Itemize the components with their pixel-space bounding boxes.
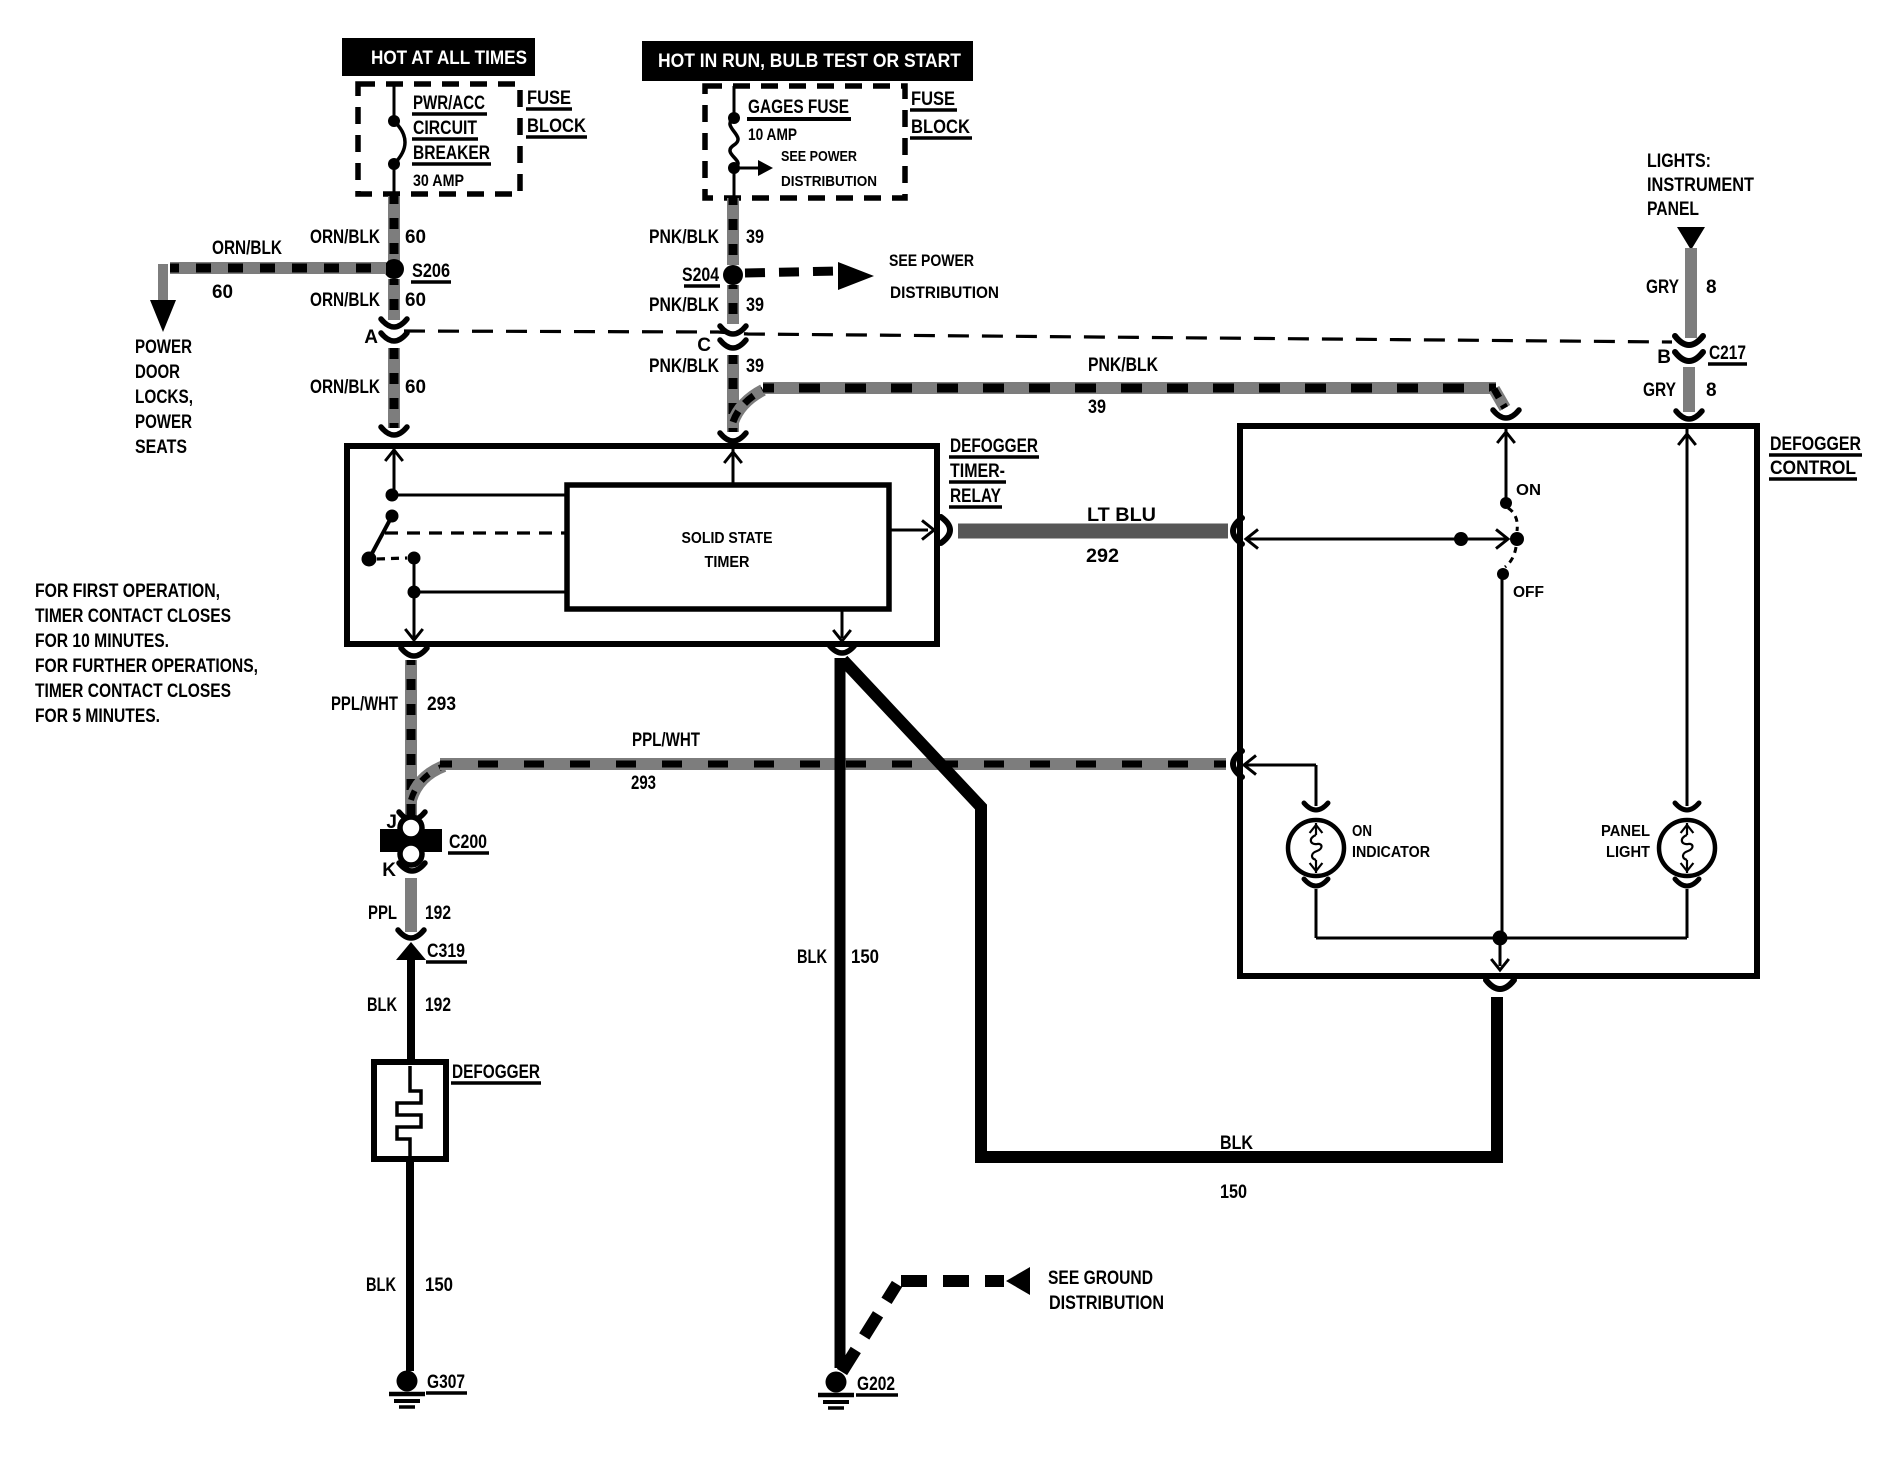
ground G202 (818, 1372, 898, 1409)
svg-text:BLK: BLK (366, 1275, 396, 1296)
switch OFF position (1497, 568, 1544, 601)
wire ORN/BLK 60 (S206 left branch) (150, 264, 386, 332)
svg-text:TIMER CONTACT CLOSES: TIMER CONTACT CLOSES (35, 681, 231, 702)
svg-text:LIGHTS:: LIGHTS: (1647, 151, 1711, 172)
svg-text:SEE GROUND: SEE GROUND (1048, 1268, 1153, 1289)
svg-text:PPL/WHT: PPL/WHT (632, 730, 700, 751)
solid state timer (567, 485, 889, 609)
defogger control box (1240, 426, 1757, 976)
defogger heating element box (374, 1062, 446, 1159)
svg-text:DEFOGGER: DEFOGGER (950, 436, 1038, 457)
wire PNK/BLK 39 (C to timer-relay) (727, 355, 739, 432)
label DEFOGGER (451, 1062, 541, 1083)
svg-text:192: 192 (425, 903, 451, 924)
label LT BLU 292 (1086, 505, 1156, 567)
label ON INDICATOR (1352, 823, 1430, 861)
svg-text:TIMER CONTACT CLOSES: TIMER CONTACT CLOSES (35, 606, 231, 627)
label FUSE BLOCK (left) (526, 88, 587, 137)
svg-text:BLOCK: BLOCK (911, 117, 970, 138)
connector chevron (timer-relay PPL/WHT output) (401, 648, 427, 656)
connector C (in-line) (697, 326, 746, 356)
svg-text:SEATS: SEATS (135, 437, 187, 458)
label ORN/BLK 60 (row 3) (310, 377, 426, 398)
label PPL 192 (368, 903, 451, 924)
svg-text:60: 60 (405, 377, 426, 398)
ground G307 (389, 1371, 467, 1408)
power feed label HOT IN RUN, BULB TEST OR START (642, 41, 973, 81)
connector chevron (defogger control ground output) (1486, 980, 1514, 989)
svg-text:39: 39 (1088, 397, 1106, 418)
svg-text:292: 292 (1086, 546, 1119, 567)
svg-text:SOLID STATE: SOLID STATE (682, 530, 773, 547)
svg-text:DOOR: DOOR (135, 362, 180, 383)
splice S206 (384, 259, 451, 282)
svg-text:K: K (382, 860, 396, 881)
label LIGHTS: INSTRUMENT PANEL (1647, 151, 1754, 220)
label BLK 192 (367, 995, 451, 1016)
wire PNK/BLK 39 (S204 to C) (727, 285, 739, 324)
label PWR/ACC CIRCUIT BREAKER 30 AMP (412, 93, 491, 190)
svg-text:DISTRIBUTION: DISTRIBUTION (781, 173, 877, 190)
svg-text:PPL: PPL (368, 903, 397, 924)
label DEFOGGER TIMER-RELAY (949, 436, 1039, 507)
internal ground bus wire (1316, 889, 1687, 970)
internal wire (switch OFF to ground bus) (1501, 574, 1504, 938)
wire GRY 8 (C217 to defogger control) (1683, 367, 1695, 412)
relay input arrow (ORN/BLK feed) (385, 448, 403, 494)
svg-text:BLK: BLK (797, 947, 827, 968)
svg-text:S206: S206 (412, 261, 450, 282)
label PNK/BLK 39 (branch) (1088, 355, 1158, 418)
fuse GAGES FUSE 10 AMP (728, 86, 740, 198)
connector C200 (380, 817, 489, 865)
label 60 (left branch) (212, 282, 233, 303)
wire BLK 150 (defogger to G307) (406, 1159, 414, 1371)
svg-text:CIRCUIT: CIRCUIT (413, 118, 477, 139)
connector chevron at timer-relay box (center input) (720, 433, 746, 441)
wire PPL/WHT 293 (vertical) (405, 660, 417, 818)
label PPL/WHT 293 (vertical) (331, 694, 456, 715)
label ORN/BLK 60 (row 1) (310, 227, 426, 248)
connector chevron (defogger control LT BLU input) (1233, 518, 1242, 544)
svg-text:ORN/BLK: ORN/BLK (310, 290, 380, 311)
svg-text:PPL/WHT: PPL/WHT (331, 694, 398, 715)
svg-text:LIGHT: LIGHT (1606, 844, 1650, 861)
label POWER DOOR LOCKS, POWER SEATS (135, 337, 193, 458)
svg-text:FOR FURTHER OPERATIONS,: FOR FURTHER OPERATIONS, (35, 656, 258, 677)
svg-text:CONTROL: CONTROL (1770, 458, 1856, 479)
wire BLK 192 (407, 956, 415, 1062)
label DEFOGGER CONTROL (1769, 434, 1862, 479)
svg-text:INDICATOR: INDICATOR (1352, 844, 1430, 861)
svg-text:150: 150 (425, 1275, 453, 1296)
defogger heating element (397, 1066, 421, 1156)
see ground distribution arrow (dashed) (842, 1267, 1164, 1372)
svg-text:A: A (364, 327, 378, 348)
relay contact (timer controlled) (362, 489, 568, 641)
svg-text:C: C (697, 335, 711, 356)
svg-text:150: 150 (851, 947, 879, 968)
label BLK 150 (left) (366, 1275, 453, 1296)
svg-text:8: 8 (1706, 277, 1717, 298)
svg-text:DISTRIBUTION: DISTRIBUTION (890, 283, 999, 302)
internal wire (GRY input to panel light) (1678, 428, 1696, 806)
label BLK 150 (bottom run) (1220, 1133, 1253, 1203)
svg-text:ORN/BLK: ORN/BLK (310, 377, 380, 398)
svg-text:BREAKER: BREAKER (413, 143, 490, 164)
svg-text:OFF: OFF (1513, 584, 1544, 601)
connector chevron at defogger control (switch input) (1493, 410, 1519, 418)
wire ORN/BLK 60 (breaker to S206) (388, 196, 400, 262)
svg-text:PNK/BLK: PNK/BLK (649, 356, 719, 377)
svg-text:39: 39 (746, 295, 764, 316)
wire LT BLU 292 (958, 524, 1228, 539)
svg-text:BLOCK: BLOCK (527, 116, 586, 137)
svg-text:PWR/ACC: PWR/ACC (413, 93, 485, 114)
svg-text:293: 293 (427, 694, 456, 715)
svg-text:DEFOGGER: DEFOGGER (452, 1062, 540, 1083)
fuse block 1 (dashed outline) (358, 84, 520, 194)
svg-text:G307: G307 (427, 1372, 465, 1393)
svg-text:ORN/BLK: ORN/BLK (310, 227, 380, 248)
label PANEL LIGHT (1601, 823, 1650, 861)
svg-text:192: 192 (425, 995, 451, 1016)
connector C200 pin K (382, 860, 425, 881)
defogger timer-relay box (347, 446, 937, 644)
fuse block 2 (dashed outline) (705, 86, 905, 198)
wire PNK/BLK 39 (fuse to S204) (727, 198, 739, 265)
connector C200 pin J (386, 812, 425, 833)
connector chevron (timer-relay BLK output) (829, 645, 855, 653)
svg-text:GAGES FUSE: GAGES FUSE (748, 97, 849, 118)
connector chevron at timer-relay box (left input) (381, 427, 407, 435)
svg-text:30 AMP: 30 AMP (413, 171, 464, 190)
svg-text:PANEL: PANEL (1647, 199, 1699, 220)
svg-text:FOR FIRST OPERATION,: FOR FIRST OPERATION, (35, 581, 220, 602)
timer ground output arrow (833, 609, 851, 641)
label PNK/BLK 39 (row 2) (649, 295, 764, 316)
svg-text:LT BLU: LT BLU (1087, 505, 1156, 526)
svg-text:SEE POWER: SEE POWER (781, 148, 857, 165)
internal wire (LT BLU input to switch) (1246, 529, 1508, 548)
svg-text:HOT AT ALL TIMES: HOT AT ALL TIMES (371, 48, 527, 69)
label FUSE BLOCK (right) (910, 89, 972, 138)
svg-text:BLK: BLK (367, 995, 397, 1016)
svg-text:ON: ON (1516, 482, 1541, 499)
svg-text:INSTRUMENT: INSTRUMENT (1647, 175, 1754, 196)
svg-text:TIMER: TIMER (705, 554, 750, 571)
svg-text:C200: C200 (449, 832, 487, 853)
label BLK 150 (center) (797, 947, 879, 968)
svg-text:DEFOGGER: DEFOGGER (1770, 434, 1861, 455)
svg-text:C319: C319 (427, 941, 465, 962)
svg-text:LOCKS,: LOCKS, (135, 387, 193, 408)
switch common + arm (dashed) (1505, 508, 1524, 567)
label PPL/WHT 293 (horizontal) (631, 730, 700, 794)
connector A (in-line) (364, 319, 407, 348)
label ORN/BLK 60 (row 2) (310, 290, 426, 311)
label GRY 8 (row 2) (1643, 380, 1717, 401)
connector C319 (396, 930, 467, 962)
label GRY 8 (row 1) (1646, 277, 1717, 298)
lamp ON INDICATOR (1288, 803, 1344, 886)
wire BLK 150 (timer-relay to G202) (835, 658, 846, 1368)
wire GRY 8 (to C217) (1685, 248, 1697, 338)
wire PPL 192 (405, 878, 417, 932)
svg-text:S204: S204 (682, 265, 719, 286)
dashed connector line (A to C to B / C217) (404, 331, 1672, 342)
svg-text:FOR 5 MINUTES.: FOR 5 MINUTES. (35, 706, 160, 727)
connector chevron at defogger control (panel light input) (1676, 411, 1702, 419)
svg-text:DISTRIBUTION: DISTRIBUTION (1049, 1293, 1164, 1314)
svg-text:C217: C217 (1709, 343, 1746, 364)
lamp PANEL LIGHT (1659, 803, 1715, 886)
svg-text:FOR 10 MINUTES.: FOR 10 MINUTES. (35, 631, 169, 652)
label GAGES FUSE 10 AMP (747, 97, 851, 144)
svg-text:60: 60 (405, 227, 426, 248)
svg-text:PNK/BLK: PNK/BLK (1088, 355, 1158, 376)
svg-text:POWER: POWER (135, 337, 192, 358)
svg-text:150: 150 (1220, 1182, 1247, 1203)
svg-text:8: 8 (1706, 380, 1717, 401)
svg-text:TIMER-: TIMER- (950, 461, 1005, 482)
svg-text:FUSE: FUSE (527, 88, 571, 109)
label PNK/BLK 39 (row 1) (649, 227, 764, 248)
timer output arrow (to LT BLU) (889, 520, 934, 539)
svg-text:POWER: POWER (135, 412, 192, 433)
label ORN/BLK (left branch) (212, 238, 282, 259)
svg-text:B: B (1657, 347, 1671, 368)
switch ON position (1500, 482, 1541, 509)
svg-text:SEE POWER: SEE POWER (889, 251, 974, 270)
connector chevron (timer-relay LT BLU output) (941, 517, 950, 543)
svg-text:ORN/BLK: ORN/BLK (212, 238, 282, 259)
svg-text:BLK: BLK (1220, 1133, 1253, 1154)
see power distribution arrow (dashed, from S204) (745, 251, 999, 302)
defogger control input arrow (PPL/WHT feed) (1244, 755, 1256, 774)
wire BLK 150 (timer-relay / defogger control ground run) (843, 660, 1497, 1157)
label PNK/BLK 39 (row 3) (649, 356, 764, 377)
note: timer operation text (35, 581, 258, 727)
connector C217 (pin B) (1657, 336, 1747, 368)
svg-text:60: 60 (212, 282, 233, 303)
splice S204 (682, 265, 743, 286)
wire PNK/BLK 39 (branch to defogger control) (733, 388, 1505, 422)
wire ORN/BLK 60 (A to timer-relay) (388, 348, 400, 428)
svg-text:39: 39 (746, 227, 764, 248)
connector chevron (defogger control PPL/WHT input) (1233, 751, 1242, 777)
svg-text:GRY: GRY (1643, 380, 1676, 401)
svg-text:HOT IN RUN, BULB TEST OR STAR: HOT IN RUN, BULB TEST OR START (658, 51, 961, 72)
svg-text:10 AMP: 10 AMP (748, 125, 797, 144)
relay input arrow (PNK/BLK feed) (724, 448, 742, 486)
circuit breaker PWR/ACC 30 AMP (388, 84, 405, 196)
svg-text:ON: ON (1352, 823, 1372, 840)
svg-text:PANEL: PANEL (1601, 823, 1650, 840)
arrow to instrument panel lights (1677, 227, 1705, 250)
power feed label HOT AT ALL TIMES (342, 38, 535, 76)
svg-text:293: 293 (631, 773, 656, 794)
wire PPL/WHT 293 (horizontal branch to defogger control) (411, 764, 1226, 800)
wire ORN/BLK 60 (S206 to A) (388, 279, 400, 320)
svg-text:RELAY: RELAY (950, 486, 1001, 507)
svg-text:G202: G202 (857, 1374, 895, 1395)
svg-text:PNK/BLK: PNK/BLK (649, 227, 719, 248)
svg-text:39: 39 (746, 356, 764, 377)
svg-text:60: 60 (405, 290, 426, 311)
svg-text:PNK/BLK: PNK/BLK (649, 295, 719, 316)
svg-text:GRY: GRY (1646, 277, 1679, 298)
see power distribution arrow (inside fuse block) (734, 148, 877, 190)
svg-text:FUSE: FUSE (911, 89, 955, 110)
internal wire (input to ON indicator) (1246, 765, 1316, 806)
defogger control input arrow (PNK/BLK feed) (1497, 428, 1515, 502)
